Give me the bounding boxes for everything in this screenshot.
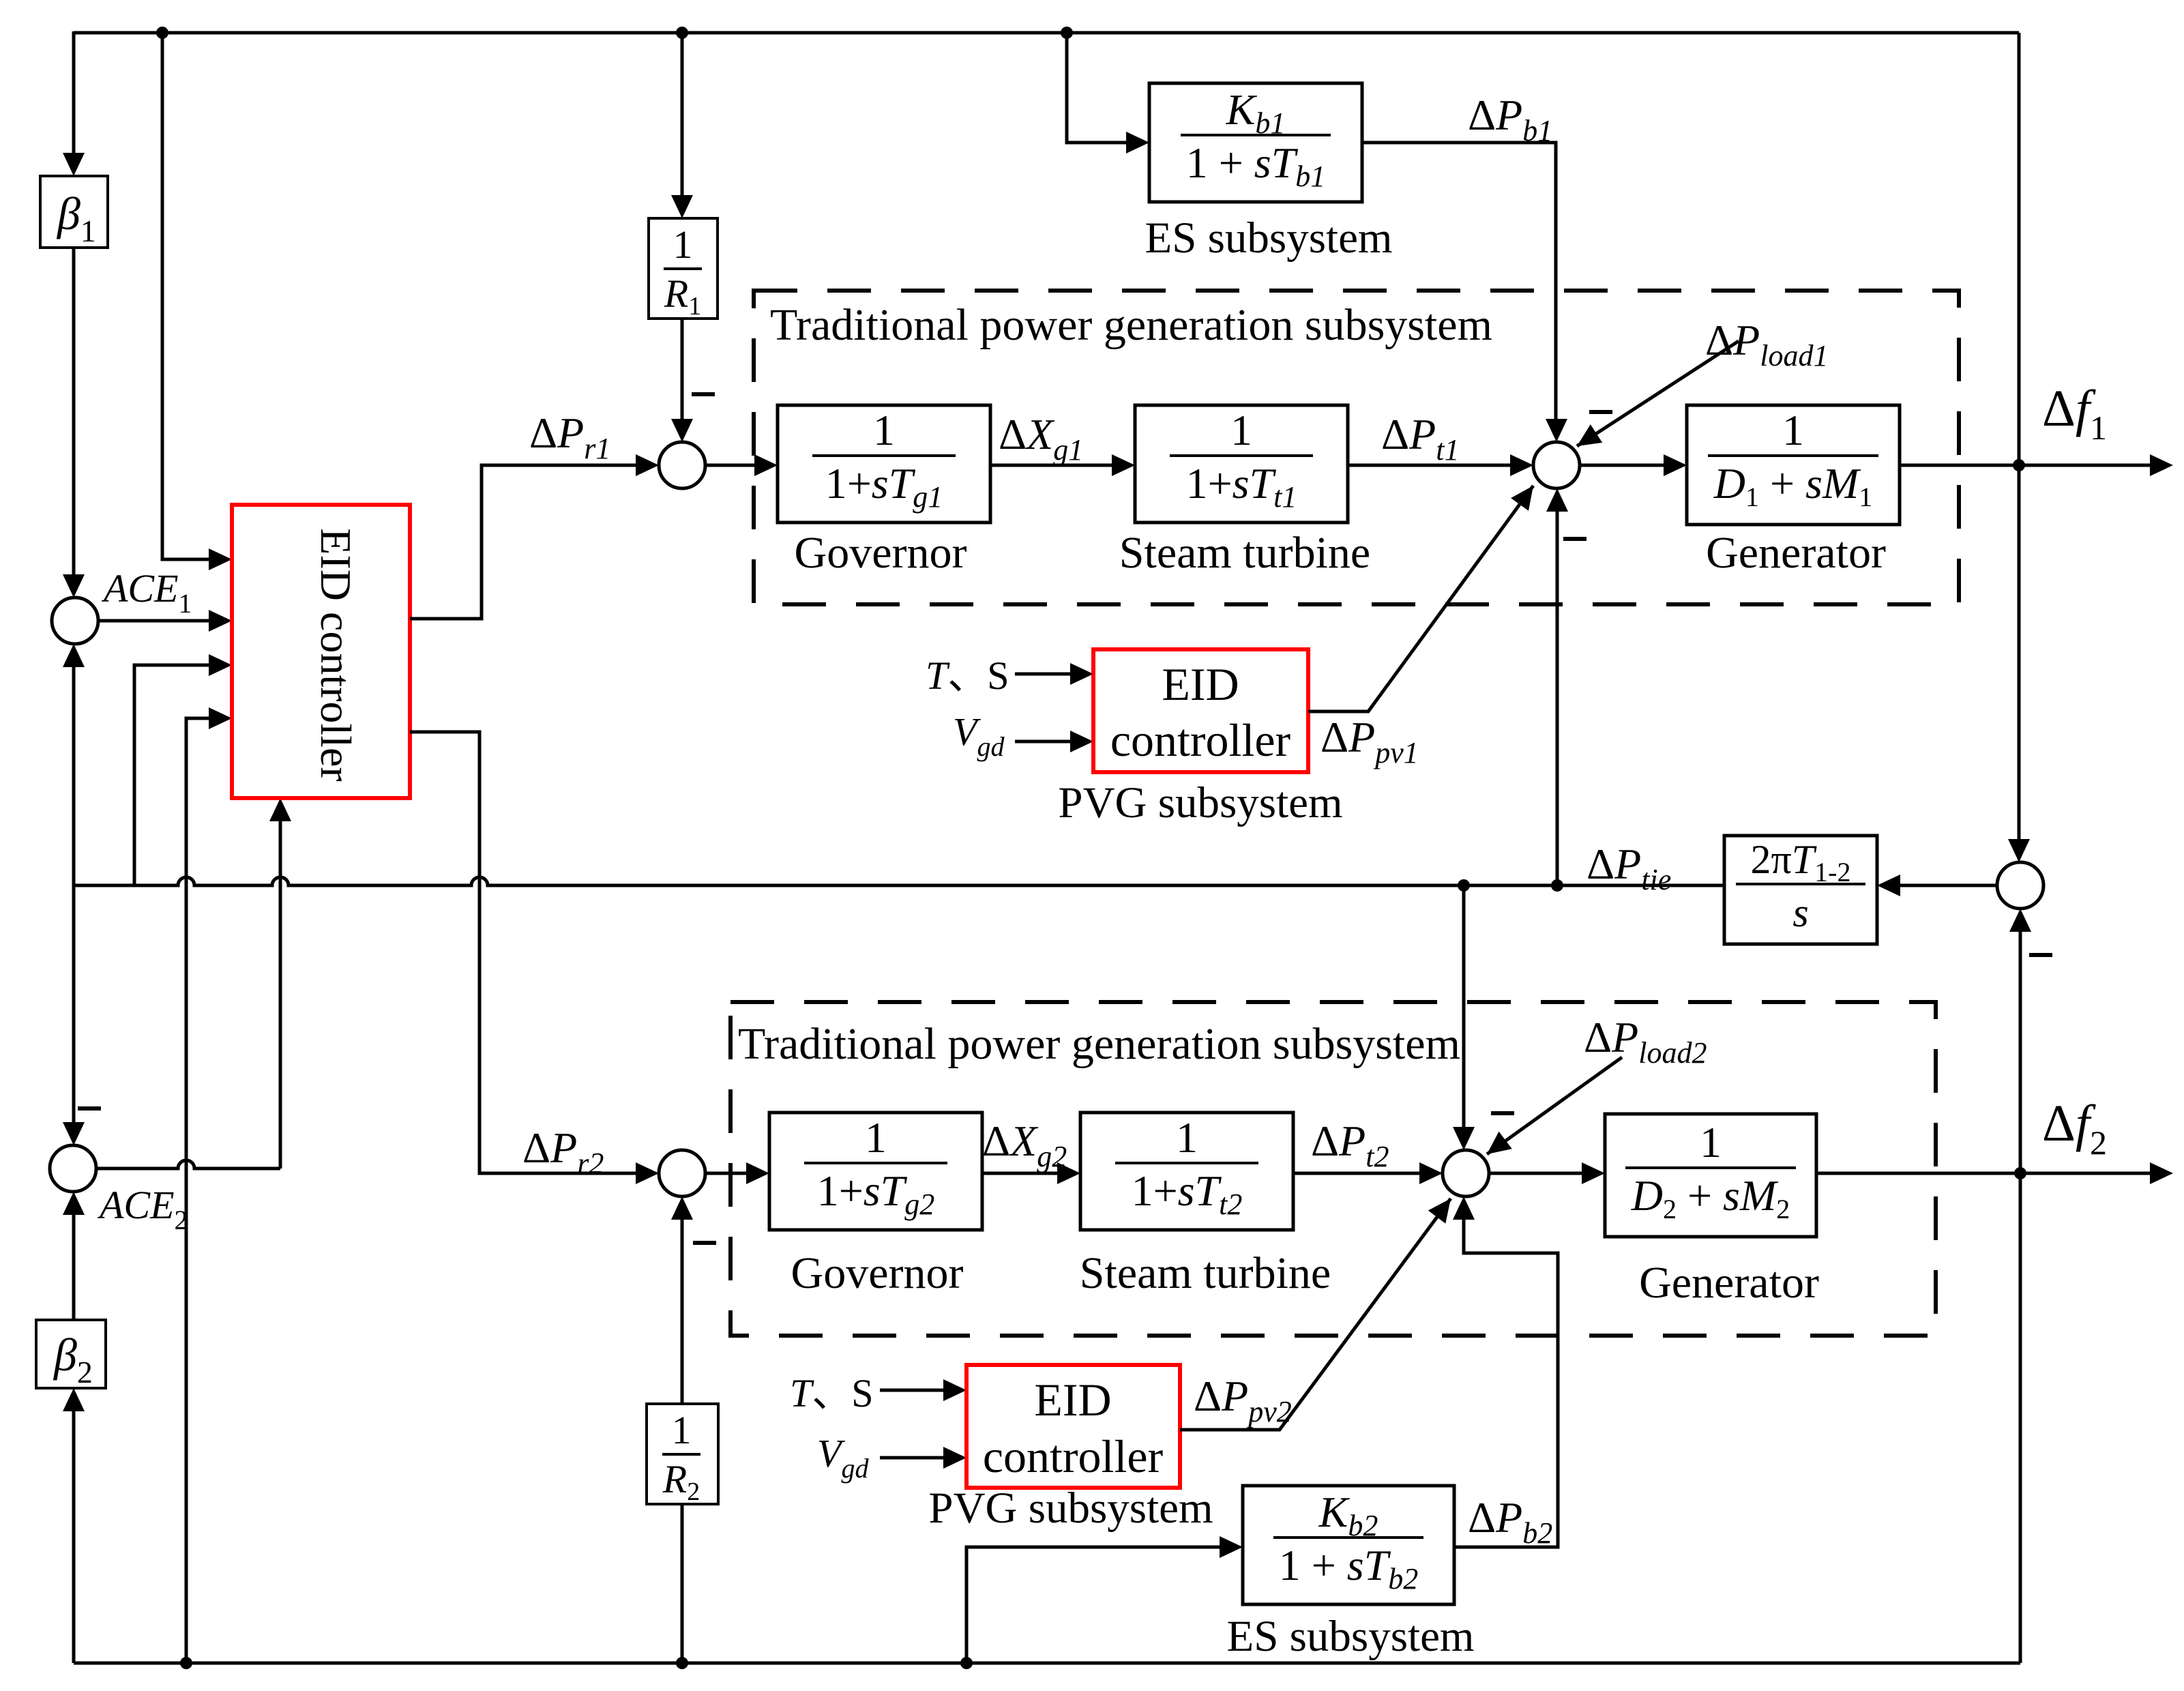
label minus ES1 at load sum1	[1589, 410, 1612, 414]
wire: left vertical into beta1	[72, 31, 76, 153]
wire: beta2 up to ACE2 bottom	[72, 1215, 76, 1320]
wire: T,S arrow to EID pvg1	[1015, 673, 1070, 676]
fraction Kb1/(1+sTb1)	[1181, 134, 1331, 136]
svg-text:Governor: Governor	[795, 528, 967, 578]
arrowhead into beta1 top	[63, 153, 85, 176]
arrowhead T,S into EID pvg1	[1070, 663, 1093, 685]
fraction 1/R2	[662, 1453, 700, 1456]
svg-text:controller: controller	[1110, 714, 1291, 766]
wire: dPr2 sum to Governor2	[705, 1172, 746, 1175]
wire: ACE1 to EID controller	[98, 619, 209, 623]
block Governor2 1/(1+sTg2)	[769, 1113, 982, 1230]
arrowhead into 2piT box	[1877, 874, 1900, 896]
fraction 1/(D1+sM1)	[1708, 454, 1878, 457]
node: junction df1 feedback	[2013, 459, 2025, 471]
wire: bottom feedback vertical x=273 to EID in4	[186, 718, 209, 1663]
fraction 1/(D2+sM2)	[1625, 1166, 1796, 1169]
arrowhead dPload2 into sum	[1487, 1132, 1512, 1154]
fraction 1/(1+sTg2)	[804, 1162, 947, 1164]
wire: Governor2 to Steam2	[982, 1172, 1057, 1175]
arrowhead EID in1	[209, 548, 232, 570]
wire: df2 feedback down to bottom line	[2019, 1173, 2022, 1663]
label minus at tie sum	[2029, 953, 2052, 957]
svg-text:PVG subsystem: PVG subsystem	[1058, 778, 1342, 827]
fraction Kb2/(1+sTb2)	[1273, 1536, 1423, 1539]
wire: x=238 vertical to EID in1	[162, 33, 209, 559]
wire: EID pvg2 output dPpv2	[1180, 1199, 1451, 1430]
svg-text:1: 1	[865, 1113, 887, 1162]
wire: df2 up into tie sum bottom	[2019, 932, 2022, 1173]
arrowhead into Kb2	[1220, 1536, 1243, 1558]
arrowhead dPpv1 into load sum1	[1511, 486, 1533, 511]
svg-text:Generator: Generator	[1639, 1258, 1819, 1308]
svg-text:EID: EID	[1162, 658, 1239, 710]
label minus at ACE2	[78, 1106, 101, 1111]
wire: df1 feedback vertical (top line / down to tie sum)	[2018, 33, 2021, 839]
dashed boundary: Traditional power generation subsystem (area2)	[731, 1002, 1936, 1336]
fraction 1/(1+sTt1)	[1170, 454, 1313, 457]
wire: bus up into load sum1 bottom	[1556, 512, 1559, 885]
arrowhead EID in2	[209, 610, 232, 632]
svg-text:Traditional power generation s: Traditional power generation subsystem	[770, 300, 1492, 350]
arrowhead 1/R1 into sum (minus)	[671, 419, 693, 442]
svg-text:T、S: T、S	[926, 653, 1009, 698]
summing junction tie	[1997, 862, 2043, 909]
arrowhead T,S into EID pvg2	[943, 1379, 966, 1401]
arrowhead EID in4	[209, 707, 232, 729]
svg-text:D2 + sM2: D2 + sM2	[1631, 1171, 1790, 1224]
wire: dPr1 sum to Governor1	[705, 464, 754, 467]
wire: Steam2 to load sum2	[1293, 1172, 1419, 1175]
arrowhead into 1/R1	[671, 195, 693, 218]
block Generator1 1/(D1+sM1)	[1687, 405, 1900, 525]
svg-text:T、S: T、S	[790, 1371, 874, 1415]
arrowhead into beta2 bottom	[63, 1388, 85, 1411]
arrowhead into Generator1	[1664, 454, 1687, 476]
label minus at dPr2 sum	[693, 1241, 716, 1245]
wire: bus vertical x=197 to EID in3	[134, 665, 209, 885]
label minus at dPr1 sum	[692, 392, 715, 396]
svg-text:ES subsystem: ES subsystem	[1145, 214, 1393, 263]
block Steam turbine2 1/(1+sTt2)	[1080, 1113, 1293, 1230]
block ES2 Kb2/(1+sTb2)	[1243, 1486, 1454, 1604]
arrowhead into Generator2	[1582, 1162, 1605, 1184]
summing junction load sum1	[1533, 442, 1580, 488]
wire: tie sum to 2piT box	[1900, 884, 1997, 887]
arrowhead into ACE1 bottom	[63, 644, 85, 667]
svg-text:D1 + sM1: D1 + sM1	[1713, 459, 1873, 512]
node: junction bottom x=273	[180, 1657, 192, 1669]
svg-text:Governor: Governor	[791, 1248, 964, 1298]
arrowhead EID in3	[209, 654, 232, 676]
svg-text:1: 1	[1176, 1113, 1198, 1162]
wire: Generator2 output df2	[1816, 1172, 2150, 1175]
arrowhead Kb2 into load sum2	[1453, 1196, 1475, 1220]
svg-text:s: s	[1792, 890, 1808, 935]
svg-text:EID controller: EID controller	[312, 528, 360, 781]
gain block 1/R2	[647, 1404, 718, 1504]
arrowhead df1 output	[2150, 454, 2173, 476]
wire: top line down to 1/R1	[681, 33, 684, 195]
wire: load sum1 to Generator1	[1580, 464, 1664, 467]
gain block 1/R1	[649, 218, 718, 319]
arrowhead into dPr2 sum	[636, 1162, 659, 1184]
wire: bottom line up to 1/R2	[681, 1504, 684, 1663]
arrowhead into Governor2	[746, 1162, 769, 1184]
wire: Steam1 to load sum1	[1348, 464, 1510, 467]
wire: beta1 to ACE1 sum	[72, 248, 76, 574]
arrowhead 1/R2 into sum (minus)	[671, 1196, 693, 1220]
wire: EID out1 to dPr1 sum	[410, 465, 636, 619]
summing junction dPr2	[659, 1150, 705, 1196]
arrowhead dPpv2 into load sum2	[1428, 1199, 1451, 1224]
svg-text:EID: EID	[1034, 1374, 1111, 1426]
svg-text:1: 1	[1230, 406, 1252, 454]
svg-text:1: 1	[873, 406, 895, 454]
fraction 2piT12/s	[1736, 883, 1865, 885]
svg-text:PVG subsystem: PVG subsystem	[928, 1484, 1213, 1533]
node: junction top line x=238	[156, 27, 168, 39]
wire: Vgd arrow to EID pvg1	[1015, 740, 1070, 744]
svg-text:Steam turbine: Steam turbine	[1080, 1248, 1331, 1298]
controller block EID1 (EID controller, red)	[232, 505, 410, 798]
svg-text:ES subsystem: ES subsystem	[1227, 1612, 1475, 1661]
wire: Vgd arrow to EID pvg2	[880, 1456, 943, 1460]
summing junction ACE1	[52, 598, 98, 644]
arrowhead dPload1 into sum	[1577, 424, 1602, 446]
wire: dPload1 diagonal into load sum1	[1577, 341, 1739, 446]
label minus tie at load sum2	[1491, 1111, 1514, 1115]
arrowhead EID bottom input	[269, 798, 291, 821]
controller block EID pvg2 (red)	[966, 1365, 1180, 1488]
wire: top line branch to ES1	[1067, 33, 1126, 143]
fraction 1/(1+sTg1)	[812, 454, 956, 457]
wire: EID out2 toward area2	[410, 732, 636, 1173]
wire: ACE2 branch vertical x=411 to EID bottom	[279, 821, 282, 1168]
arrowhead df2 into tie sum (minus)	[2009, 909, 2031, 932]
wire: bottom feedback line	[74, 1662, 2020, 1665]
wire: bottom line up into beta2	[72, 1411, 76, 1663]
wire: Kb2 output up to load sum2 bottom	[1454, 1220, 1558, 1547]
node: junction top line x=1564	[1061, 27, 1073, 39]
label minus tie at load sum1	[1563, 537, 1587, 541]
summing junction load sum2	[1443, 1150, 1489, 1196]
arrowhead df2 output	[2150, 1162, 2173, 1184]
block Generator2 1/(D2+sM2)	[1605, 1114, 1816, 1237]
controller block EID pvg1 (red)	[1093, 649, 1308, 772]
svg-text:1: 1	[1700, 1118, 1722, 1166]
wire: T,S arrow to EID pvg2	[880, 1389, 943, 1392]
wire: tie bus from 2piT box to left vertical	[74, 877, 1724, 885]
arrowhead into Governor1	[754, 454, 778, 476]
svg-text:1: 1	[1782, 406, 1804, 454]
arrowhead into dPr1 sum	[636, 454, 659, 476]
block ES1 Kb1/(1+sTb1)	[1149, 83, 1362, 202]
arrowhead Vgd into EID pvg2	[943, 1447, 966, 1469]
arrowhead into load sum2	[1419, 1162, 1443, 1184]
wire: bottom line up to Kb2 input	[966, 1547, 1220, 1663]
arrowhead beta2 into ACE2	[63, 1192, 85, 1215]
wire: bus up into ACE1 bottom	[72, 667, 76, 885]
wire: 1/R2 up to dPr2 sum	[681, 1220, 684, 1404]
wire: bus down into ACE2 top	[72, 885, 76, 1122]
gain block B1 (beta1)	[40, 176, 108, 248]
wire: ES1 output to load sum1 top	[1362, 143, 1556, 419]
wire: load sum2 to Generator2	[1489, 1172, 1582, 1175]
arrowhead into ACE1 top	[63, 574, 85, 598]
arrowhead into ACE2 top (minus)	[63, 1122, 85, 1145]
wire: Governor1 to Steam1	[990, 464, 1112, 467]
arrowhead into Steam2	[1057, 1162, 1080, 1184]
block Steam turbine1 1/(1+sTt1)	[1135, 405, 1348, 523]
summing junction dPr1	[659, 442, 705, 488]
block Governor1 1/(1+sTg1)	[778, 405, 990, 523]
arrowhead into Steam1	[1112, 454, 1135, 476]
arrowhead into load sum1	[1510, 454, 1533, 476]
wire: Generator1 output df1	[1900, 464, 2150, 467]
wire: EID pvg1 output dPpv1	[1308, 486, 1533, 711]
node: junction bus x=2283	[1551, 879, 1563, 892]
summing junction ACE2	[50, 1145, 96, 1192]
wire: ACE2 to EID bottom corner	[96, 1160, 280, 1168]
svg-text:1: 1	[673, 222, 693, 267]
arrowhead Vgd into EID pvg1	[1070, 731, 1093, 752]
gain block B2 (beta2)	[36, 1320, 106, 1388]
block tie 2piT12/s	[1724, 836, 1877, 944]
svg-text:Traditional power generation s: Traditional power generation subsystem	[738, 1019, 1460, 1069]
svg-text:controller: controller	[983, 1430, 1164, 1482]
svg-text:Steam turbine: Steam turbine	[1119, 528, 1370, 578]
node: junction df2 feedback	[2014, 1167, 2026, 1179]
wire: 1/R1 to dPr1 sum	[681, 319, 684, 419]
arrowhead tie into load sum1 (minus)	[1546, 488, 1568, 512]
wire: bus down into load sum2 top	[1462, 885, 1466, 1127]
dashed boundary: Traditional power generation subsystem (area1)	[754, 291, 1959, 604]
node: junction bottom x=1000	[676, 1657, 688, 1669]
wire: dPload2 diagonal into load sum2	[1487, 1057, 1622, 1154]
svg-text:Generator: Generator	[1706, 528, 1886, 578]
fraction 1/R1	[664, 267, 702, 270]
node: junction bus x=2146	[1458, 879, 1470, 892]
arrowhead df1 into tie sum top	[2008, 839, 2030, 862]
node: junction top line x=1000	[676, 27, 688, 39]
wire: top feedback line (&Delta;f1)	[74, 31, 2019, 35]
arrowhead into ES1	[1126, 132, 1149, 153]
arrowhead tie into load sum2 (minus)	[1453, 1127, 1475, 1150]
arrowhead ES1 into load sum1 (minus)	[1546, 419, 1567, 442]
svg-text:1: 1	[672, 1408, 692, 1452]
node: junction bottom x=1417	[960, 1657, 973, 1669]
fraction 1/(1+sTt2)	[1115, 1162, 1258, 1164]
